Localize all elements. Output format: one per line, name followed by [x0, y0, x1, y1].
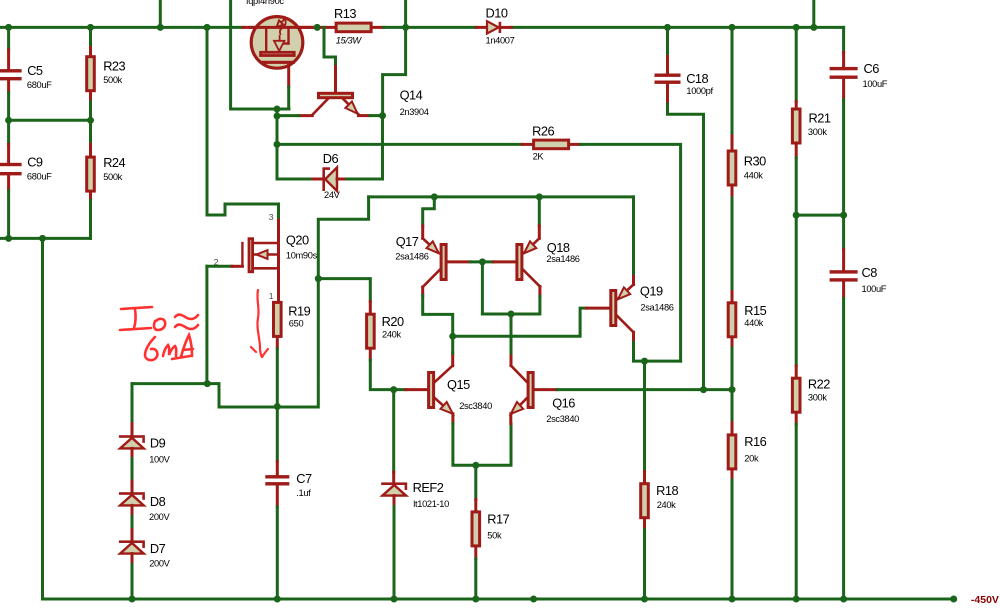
resistor R15 — [731, 292, 734, 302]
mosfet M1 internal zigzag arrow — [279, 19, 285, 25]
wire Q19 emitter up to bus — [632, 197, 635, 273]
capacitor C7 — [276, 461, 279, 475]
svg-text:D10: D10 — [486, 6, 508, 21]
wire top rail to Q20 drain jog x=207 — [207, 27, 279, 220]
wire Q19 collector node y=361 — [634, 343, 681, 362]
mosfet M1 drain rail line through circle — [250, 26, 317, 29]
svg-text:C9: C9 — [27, 155, 43, 170]
wire Q16 collector up — [510, 314, 513, 353]
wire Q16 base to R15/R16 node — [557, 388, 732, 391]
svg-text:R16: R16 — [744, 434, 766, 449]
svg-text:R17: R17 — [487, 512, 509, 527]
svg-text:C8: C8 — [862, 265, 878, 280]
wire D6 anode to Q14 emitter node — [347, 116, 383, 179]
svg-text:Q15: Q15 — [447, 377, 470, 392]
svg-text:300k: 300k — [808, 392, 827, 402]
svg-text:C5: C5 — [27, 63, 43, 78]
transistor Q17 2sa1486 — [423, 197, 435, 226]
svg-text:Q18: Q18 — [547, 240, 570, 255]
transistor Q18 2sa1486 — [538, 197, 541, 226]
svg-text:R19: R19 — [288, 304, 310, 319]
resistor R17 — [474, 500, 477, 511]
svg-text:680uF: 680uF — [27, 171, 52, 181]
zener diode D9 — [131, 384, 134, 424]
svg-text:Q20: Q20 — [286, 233, 309, 248]
svg-text:240k: 240k — [657, 500, 676, 510]
svg-text:fqpf4n90c: fqpf4n90c — [246, 0, 284, 6]
svg-text:500k: 500k — [103, 172, 122, 182]
resistor R21 — [795, 27, 798, 101]
handwritten annotation 6mA — [145, 335, 193, 360]
wire base tie down to Q18 collector wire — [481, 262, 484, 314]
svg-text:3: 3 — [269, 212, 274, 222]
svg-text:20k: 20k — [744, 454, 759, 464]
svg-text:.1uf: .1uf — [296, 488, 311, 498]
resistor R30 — [731, 27, 734, 135]
svg-text:C7: C7 — [296, 471, 312, 486]
svg-text:lt1021-10: lt1021-10 — [413, 499, 449, 509]
svg-text:D9: D9 — [150, 435, 166, 450]
mosfet M1 internal body arrow triangle — [274, 41, 284, 51]
resistor R18 — [643, 472, 646, 483]
wire tail down to R17 — [474, 465, 477, 499]
svg-text:C6: C6 — [864, 61, 880, 76]
svg-text:1000pf: 1000pf — [686, 86, 713, 96]
wire stub from top edge x=814 — [812, 0, 815, 27]
svg-text:2sc3840: 2sc3840 — [459, 401, 492, 411]
resistor R26 — [522, 143, 532, 146]
svg-text:Q14: Q14 — [400, 88, 423, 103]
transistor Q20 10m90s nmos — [277, 220, 280, 243]
wire joining C5 and R23 bottoms — [8, 119, 91, 122]
handwritten red arrow — [251, 290, 268, 357]
svg-text:D7: D7 — [150, 541, 166, 556]
svg-text:100uF: 100uF — [863, 79, 888, 89]
wire bus from node A along y=144 to R26 — [277, 143, 522, 146]
wire mirror node to Q19 base — [453, 308, 587, 336]
wire Q18 collector to Q16 collector — [482, 296, 540, 314]
svg-text:R23: R23 — [103, 58, 125, 73]
mosfet M1 internal gate bars — [265, 27, 267, 50]
svg-text:R24: R24 — [103, 155, 125, 170]
zener reference REF2 lt1021-10 — [392, 390, 395, 473]
wire C5 bottom to C9 top — [7, 120, 10, 144]
capacitor C5 — [0, 69, 22, 72]
svg-text:R30: R30 — [744, 153, 766, 168]
svg-text:15/3W: 15/3W — [336, 35, 363, 45]
svg-text:650: 650 — [289, 319, 304, 329]
svg-text:240k: 240k — [382, 329, 401, 339]
svg-text:500k: 500k — [103, 75, 122, 85]
svg-text:R18: R18 — [656, 483, 678, 498]
svg-text:100uF: 100uF — [862, 284, 887, 294]
svg-text:D6: D6 — [323, 151, 339, 166]
wire from top edge x=405 jog to Q14 emitter node — [383, 0, 406, 116]
svg-text:2sc3840: 2sc3840 — [546, 414, 579, 424]
svg-text:D8: D8 — [150, 494, 166, 509]
junction dots — [5, 24, 12, 31]
resistor R24 — [89, 120, 92, 144]
zener diode D6 — [313, 178, 323, 181]
wire bottom supply rail — [43, 598, 954, 601]
wire Q15 emitter down to tail — [453, 424, 511, 466]
svg-text:10m90s: 10m90s — [286, 250, 318, 260]
zener diode D7 — [131, 516, 134, 529]
capacitor C8 — [842, 215, 845, 249]
svg-text:680uF: 680uF — [27, 80, 52, 90]
svg-text:R13: R13 — [334, 6, 356, 21]
svg-text:24V: 24V — [324, 190, 341, 200]
wire stub from top edge x=160 — [159, 0, 162, 27]
svg-text:REF2: REF2 — [413, 480, 444, 495]
wire top supply rail left segment — [0, 26, 243, 29]
wire emitter bus y=197 — [369, 195, 634, 198]
wire left drop to bottom rail — [41, 238, 44, 599]
capacitor C6 — [842, 27, 845, 52]
svg-text:R22: R22 — [808, 377, 830, 392]
resistor R22 — [795, 215, 798, 366]
svg-text:R26: R26 — [532, 124, 554, 139]
transistor Q19 2sa1486 — [586, 307, 609, 310]
mosfet M1 fqpf4n90c circle body — [251, 17, 303, 69]
transistor Q16 2sc3840 — [528, 373, 533, 408]
wire joining C9 and R24 bottoms — [0, 237, 91, 240]
svg-text:Q16: Q16 — [552, 395, 575, 410]
mosfet M1 source lead down — [287, 64, 290, 87]
svg-text:2sa1486: 2sa1486 — [640, 302, 673, 312]
svg-text:100V: 100V — [149, 454, 170, 464]
svg-text:C18: C18 — [686, 71, 708, 86]
svg-text:200V: 200V — [149, 512, 170, 522]
wire Q17 collector down to mirror node — [423, 296, 453, 337]
svg-text:200V: 200V — [149, 559, 170, 569]
svg-text:R15: R15 — [744, 303, 766, 318]
svg-text:2K: 2K — [533, 152, 545, 162]
resistor R23 — [89, 27, 92, 47]
wire gate node to D9 chain and R20 riser — [132, 382, 207, 385]
svg-text:2sa1486: 2sa1486 — [395, 252, 428, 262]
wire D6 left leg — [277, 178, 313, 181]
svg-text:R21: R21 — [809, 111, 831, 126]
svg-text:440k: 440k — [744, 170, 763, 180]
resistor R13 — [336, 23, 371, 32]
wire Q15 collector up to mirror node — [451, 336, 454, 353]
svg-text:50k: 50k — [487, 530, 502, 540]
wire R21 bottom to C6 bottom — [796, 214, 843, 217]
resistor R16 — [731, 390, 734, 423]
svg-text:2n3904: 2n3904 — [400, 107, 429, 117]
resistor R19 — [274, 302, 282, 336]
svg-text:Q19: Q19 — [640, 284, 663, 299]
wire C18 bottom to Q16 base node — [668, 104, 704, 389]
svg-text:300k: 300k — [808, 127, 827, 137]
svg-text:440k: 440k — [744, 318, 763, 328]
wire top rail red lead through mosfet M1 to R13 — [243, 26, 335, 29]
capacitor C18 — [666, 27, 669, 56]
wire R26 right to vertical drop x=680 — [581, 144, 681, 361]
mosfet M1 pedestal bar — [261, 52, 295, 55]
wire top rail R13 to D10 — [370, 26, 384, 29]
transistor Q15 2sc3840 — [406, 388, 427, 391]
resistor R20 — [318, 279, 370, 302]
svg-text:2sa1486: 2sa1486 — [546, 254, 579, 264]
wire Q17/Q18 base tie — [470, 260, 493, 263]
wire mosfet source node down x=277 — [276, 109, 279, 179]
transistor Q14 2n3904 — [334, 67, 337, 92]
mosfet M1 bottom plate — [260, 61, 295, 64]
svg-text:1: 1 — [269, 291, 274, 301]
zener diode D8 — [131, 459, 134, 482]
wire gate of Q20 — [207, 265, 232, 268]
wire node down to R18 — [643, 361, 646, 472]
diode D10 1n4007 — [476, 26, 487, 29]
wire from top edge x=230 down to mosfet source wire — [231, 0, 289, 109]
handwritten annotation ID approx — [120, 307, 198, 330]
wire R13 junction to Q14 base — [324, 27, 336, 66]
svg-text:1n4007: 1n4007 — [486, 36, 515, 46]
wire top rail D10 to C6 corner — [511, 26, 843, 29]
svg-text:Q17: Q17 — [396, 234, 419, 249]
svg-text:-450V: -450V — [971, 594, 999, 606]
svg-text:R20: R20 — [382, 314, 404, 329]
wire left column C5/C9 x=8.6 — [7, 27, 10, 50]
capacitor C9 — [0, 163, 22, 166]
